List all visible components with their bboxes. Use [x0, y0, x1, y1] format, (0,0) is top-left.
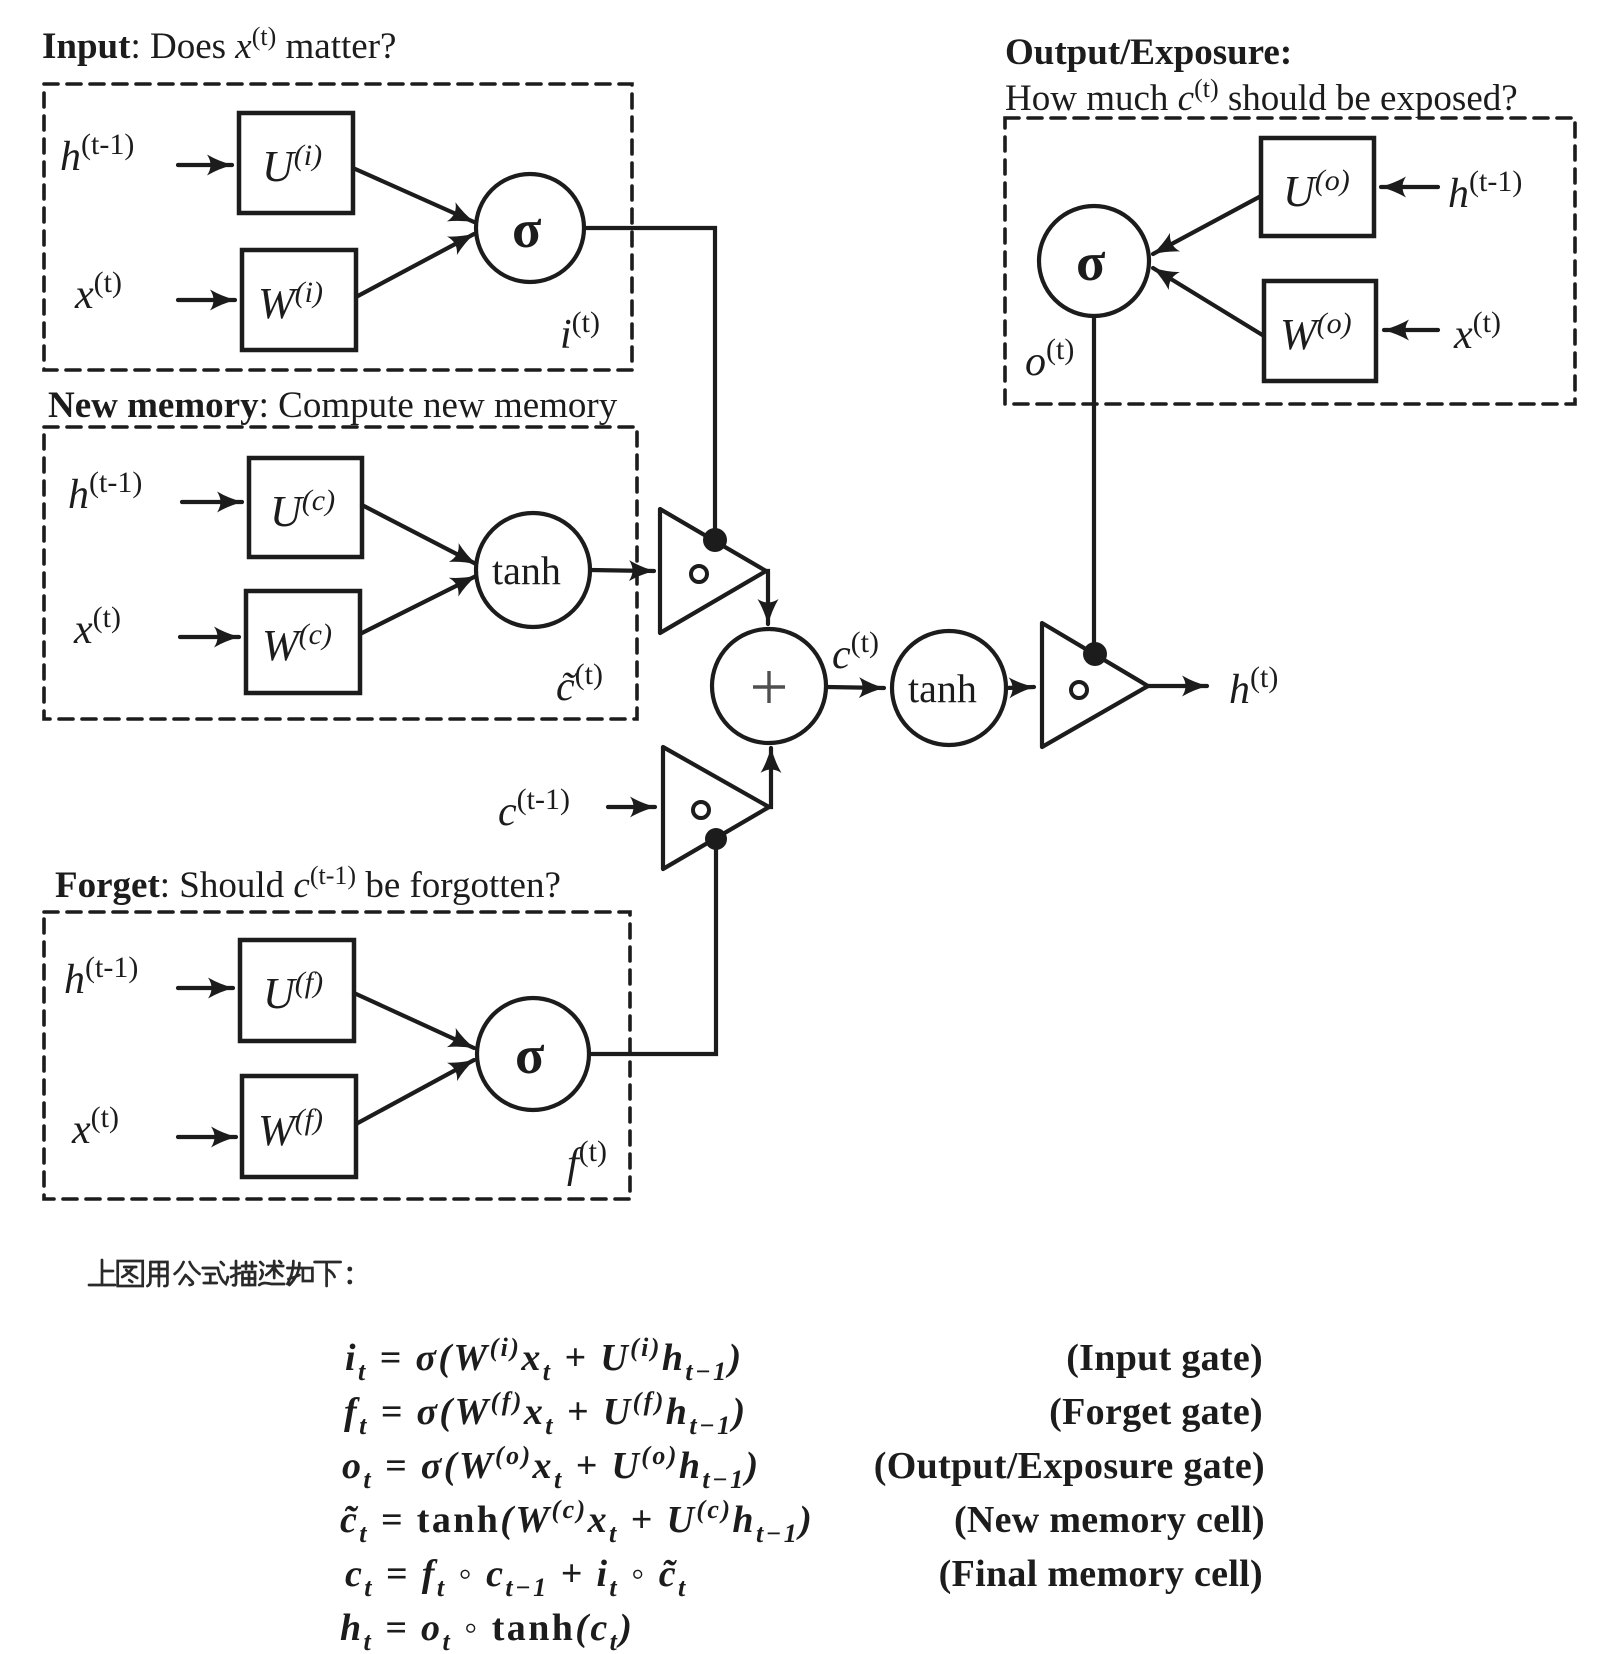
wire tanh to output mult	[1006, 687, 1034, 688]
plus circle: cell update	[712, 629, 826, 743]
junction dot on top edge	[703, 528, 727, 552]
svg-text:(Forget gate): (Forget gate)	[1049, 1391, 1263, 1433]
hanzi xia	[315, 1262, 341, 1286]
wire arrow h to U(f)	[178, 986, 233, 990]
box W(c)	[246, 591, 360, 693]
hanzi gong	[175, 1262, 200, 1285]
tanh circle: cell output	[892, 631, 1006, 745]
svg-text:tanh: tanh	[492, 548, 561, 593]
wire U(o) to sigma	[1153, 196, 1261, 254]
svg-text:How much c(t) should be expose: How much c(t) should be exposed?	[1005, 74, 1518, 119]
wire U(f) to sigma	[354, 993, 474, 1048]
wire sigma down to output mult	[1092, 316, 1096, 648]
mult gate triangle: forget x cell	[663, 747, 769, 869]
hanzi shu4	[259, 1261, 284, 1285]
svg-text:New memory: Compute new memory: New memory: Compute new memory	[48, 385, 618, 426]
wire arrow h to U(i)	[178, 163, 232, 167]
wire arrow h to U(o) leftward	[1381, 185, 1438, 189]
box W(o)	[1264, 281, 1376, 381]
svg-text:(Final memory cell): (Final memory cell)	[939, 1553, 1263, 1595]
svg-text:(Input gate): (Input gate)	[1066, 1337, 1263, 1379]
hanzi shi4	[203, 1262, 228, 1284]
dashed box: output gate	[1005, 118, 1575, 404]
wire tanh to mult gate	[590, 570, 654, 571]
wire sigma out right and down	[584, 228, 715, 535]
wire output mult to h(t)	[1148, 684, 1207, 688]
Chinese caption (drawn as strokes)	[89, 1260, 352, 1286]
tanh circle: new memory	[476, 513, 590, 627]
box U(i)	[239, 113, 353, 213]
wire arrow x to W(i)	[178, 298, 235, 302]
wire arrow h to U(c)	[182, 500, 242, 504]
hanzi shang	[89, 1260, 115, 1285]
svg-text:ot = σ(W(o)xt + U(o)ht−1): ot = σ(W(o)xt + U(o)ht−1)	[342, 1441, 761, 1494]
hanzi yong	[147, 1262, 167, 1286]
hanzi miao	[231, 1261, 256, 1285]
sigma circle: forget gate	[477, 998, 589, 1110]
sigma circle: output gate	[1039, 206, 1149, 316]
wire W(f) to sigma	[356, 1060, 474, 1124]
wire sigma out right and up	[589, 845, 716, 1054]
wire U(i) to sigma	[353, 168, 474, 222]
dashed box: forget gate	[44, 912, 630, 1199]
svg-text:tanh: tanh	[908, 666, 977, 711]
svg-text:σ: σ	[1076, 232, 1106, 292]
wire W(i) to sigma	[356, 234, 474, 297]
wire plus to tanh	[827, 687, 884, 688]
dashed box: new memory	[44, 427, 637, 719]
gate labels right column	[874, 1337, 1265, 1595]
mult gate triangle: output	[1042, 623, 1148, 747]
svg-text:Input: Does x(t) matter?: Input: Does x(t) matter?	[42, 22, 396, 67]
svg-text:Forget: Should c(t-1) be forgo: Forget: Should c(t-1) be forgotten?	[55, 861, 561, 906]
wire W(c) to tanh	[360, 576, 476, 634]
mult gate triangle: input x newmem	[660, 509, 766, 633]
hanzi ru	[287, 1261, 312, 1285]
svg-text:Output/Exposure:: Output/Exposure:	[1005, 32, 1292, 73]
svg-text:σ: σ	[512, 199, 542, 259]
dashed box: input gate	[44, 84, 632, 370]
box W(i)	[242, 250, 356, 350]
box U(f)	[240, 940, 354, 1041]
wire mult apex down to plus	[766, 571, 768, 624]
svg-text:ht = ot ◦ tanh(ct): ht = ot ◦ tanh(ct)	[340, 1607, 634, 1654]
wire U(c) to tanh	[362, 505, 476, 564]
fullwidth colon	[347, 1267, 352, 1285]
hanzi tu	[118, 1261, 143, 1286]
junction dot on bottom edge of forget mult	[705, 828, 727, 850]
box U(c)	[249, 458, 362, 557]
box U(o)	[1261, 138, 1374, 236]
sigma circle: input gate	[476, 174, 584, 282]
junction dot on top edge of output mult	[1083, 642, 1107, 666]
wire forget mult apex up to plus	[769, 748, 771, 807]
box W(f)	[242, 1076, 356, 1177]
svg-text:σ: σ	[515, 1025, 545, 1085]
svg-text:(Output/Exposure gate): (Output/Exposure gate)	[874, 1445, 1265, 1487]
wire W(o) to sigma	[1153, 268, 1264, 336]
wire arrow x to W(f)	[178, 1135, 236, 1139]
svg-text:(New memory cell): (New memory cell)	[954, 1499, 1265, 1541]
wire arrow c(t-1) to forget mult	[608, 805, 655, 809]
wire arrow x to W(c)	[180, 635, 239, 639]
wire arrow x to W(o) leftward	[1384, 328, 1438, 332]
